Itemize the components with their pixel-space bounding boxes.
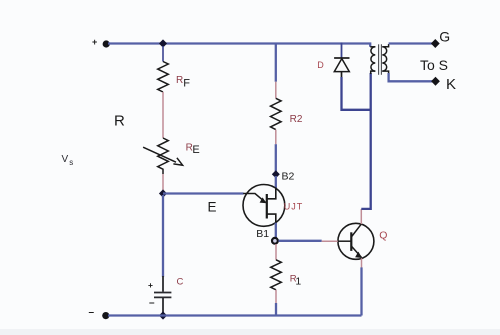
svg-text:UJT: UJT (284, 202, 304, 212)
diode D (334, 43, 349, 79)
svg-text:D: D (317, 60, 324, 70)
svg-text:+: + (148, 280, 153, 290)
transistor Q (322, 209, 374, 268)
terminal G (431, 39, 440, 48)
resistor R1 (271, 244, 282, 315)
svg-text:1: 1 (295, 276, 301, 288)
svg-text:–: – (149, 298, 155, 309)
terminal K (431, 77, 440, 86)
label Vs (62, 154, 74, 167)
label RE (186, 142, 200, 155)
svg-text:R: R (114, 112, 125, 129)
svg-text:To S: To S (420, 57, 448, 73)
label D (317, 60, 324, 70)
svg-text:–: – (89, 307, 95, 318)
label RF (176, 75, 190, 90)
resistor RF (158, 46, 169, 115)
label R2 (290, 114, 303, 125)
variable resistor RE (143, 115, 183, 190)
top wire (108, 44, 370, 47)
svg-text:V: V (62, 154, 69, 165)
+ terminal (92, 37, 110, 48)
node B1 (272, 238, 278, 244)
wire secondary to K (389, 73, 433, 81)
bottom wire (108, 314, 362, 316)
svg-text:E: E (192, 144, 199, 156)
wire secondary to G (389, 42, 433, 44)
svg-text:K: K (446, 76, 456, 93)
svg-text:R2: R2 (290, 114, 303, 125)
svg-text:Q: Q (379, 229, 387, 241)
label G (439, 29, 450, 45)
transformer T1 core (379, 44, 382, 75)
- terminal (89, 307, 110, 319)
label B2 (282, 171, 295, 183)
wire diode branch (342, 77, 371, 110)
wire Q collector riser (361, 73, 370, 209)
junction node E (left) (159, 189, 167, 197)
svg-text:E: E (208, 200, 217, 215)
svg-text:s: s (69, 158, 73, 167)
label To S (420, 57, 448, 73)
svg-text:R: R (176, 75, 183, 86)
label Q (379, 229, 387, 241)
svg-text:C: C (177, 277, 184, 288)
svg-text:B2: B2 (282, 171, 295, 183)
label R1 (290, 274, 302, 288)
svg-text:B1: B1 (256, 228, 269, 240)
wire emitter horizontal (163, 192, 244, 194)
junction at capacitor bottom (159, 311, 167, 319)
wire Q emitter drop (360, 267, 362, 315)
capacitor C (148, 276, 171, 313)
wire left vertical to capacitor (162, 195, 164, 277)
transformer T1 secondary winding (382, 44, 388, 74)
label K (446, 76, 456, 93)
UJT U1 (243, 185, 285, 239)
label UJT (284, 202, 304, 212)
label B1 (256, 228, 269, 240)
label R (114, 112, 125, 129)
transformer T1 primary winding (370, 47, 375, 74)
resistor R2 (271, 43, 282, 172)
svg-text:G: G (439, 29, 450, 45)
wire B1 to Q base (279, 240, 322, 242)
junction top of RF (159, 39, 167, 47)
label C (177, 277, 184, 288)
svg-text:+: + (92, 37, 97, 47)
label E (208, 200, 217, 215)
svg-text:F: F (183, 78, 190, 90)
node B2 (272, 170, 280, 188)
